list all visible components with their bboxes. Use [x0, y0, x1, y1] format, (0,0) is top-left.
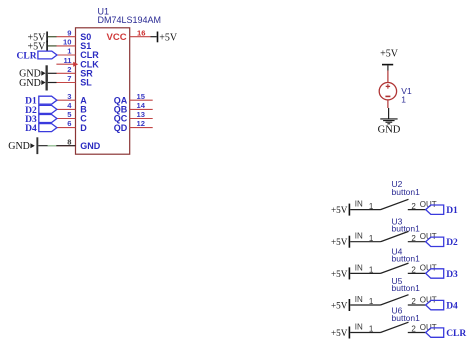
power +5V (pin 10) — [28, 41, 57, 53]
svg-text:1: 1 — [401, 95, 406, 105]
svg-text:VCC: VCC — [107, 32, 127, 43]
net flag D3 — [25, 115, 57, 125]
svg-text:button1: button1 — [392, 253, 421, 263]
pin 4 B — [57, 101, 88, 115]
pin 9 S0 — [56, 28, 91, 42]
net flag CLR (U6 out) — [426, 328, 467, 339]
power +5V (pin 9) — [28, 32, 57, 44]
power +5V (U4) — [331, 267, 350, 279]
svg-text:7: 7 — [67, 74, 71, 83]
svg-text:15: 15 — [137, 92, 146, 101]
svg-text:9: 9 — [67, 28, 71, 37]
svg-text:2: 2 — [411, 297, 416, 306]
voltage source V1 — [379, 71, 412, 109]
net flag D2 — [25, 105, 57, 115]
switch U3 — [350, 231, 437, 243]
net flag CLR — [17, 51, 58, 61]
switch U4 — [350, 263, 437, 275]
svg-text:1: 1 — [369, 325, 374, 334]
switch U2 — [350, 199, 437, 211]
IC U1 DM74LS194AM — [76, 7, 162, 155]
svg-text:2: 2 — [411, 202, 416, 211]
svg-text:+5V: +5V — [331, 300, 348, 310]
power +5V (V1 top) — [380, 49, 399, 71]
net flag D4 — [25, 124, 57, 134]
svg-text:+5V: +5V — [380, 49, 399, 60]
svg-text:+5V: +5V — [331, 205, 348, 215]
svg-text:D2: D2 — [446, 238, 458, 248]
svg-text:+5V: +5V — [331, 328, 348, 338]
svg-text:IN: IN — [355, 322, 363, 331]
svg-text:+5V: +5V — [331, 237, 348, 247]
svg-text:IN: IN — [355, 200, 363, 209]
switch U3 row — [392, 217, 421, 234]
svg-text:1: 1 — [369, 297, 374, 306]
svg-text:IN: IN — [355, 232, 363, 241]
net flag D4 (U5 out) — [426, 300, 458, 311]
svg-text:2: 2 — [411, 325, 416, 334]
svg-text:1: 1 — [369, 234, 374, 243]
svg-text:2: 2 — [67, 65, 71, 74]
net flag D2 (U3 out) — [426, 237, 458, 248]
svg-text:GND: GND — [8, 141, 30, 152]
switch U6 — [350, 322, 437, 334]
power +5V (U6) — [331, 327, 350, 339]
svg-text:6: 6 — [67, 119, 71, 128]
power +5V (U3) — [331, 236, 350, 248]
svg-text:13: 13 — [137, 110, 145, 119]
pin 14 QB — [114, 101, 153, 115]
ground GND (pin 8) — [8, 137, 75, 154]
switch U2 row — [392, 179, 421, 197]
svg-text:D4: D4 — [446, 301, 458, 311]
svg-text:CLR: CLR — [17, 51, 37, 61]
power +5V (U5) — [331, 299, 350, 311]
svg-text:CLR: CLR — [446, 329, 466, 339]
svg-text:+5V: +5V — [159, 32, 178, 43]
pin 13 QC — [114, 110, 153, 124]
svg-text:14: 14 — [137, 101, 146, 110]
ground GND (pin 2) — [19, 65, 56, 81]
svg-text:8: 8 — [67, 137, 71, 146]
svg-text:1: 1 — [369, 202, 374, 211]
svg-text:1: 1 — [369, 266, 374, 275]
svg-text:button1: button1 — [392, 283, 421, 293]
switch U5 row — [392, 276, 421, 293]
pin 11 CLK — [56, 56, 99, 70]
svg-text:button1: button1 — [392, 187, 421, 197]
power +5V (U2) — [331, 204, 350, 216]
svg-text:GND: GND — [80, 141, 101, 151]
ground GND (pin 7) — [19, 75, 56, 91]
pin 3 A — [57, 92, 88, 106]
net flag D1 — [25, 96, 57, 106]
pin 5 C — [57, 110, 88, 124]
svg-text:10: 10 — [63, 38, 71, 47]
svg-text:IN: IN — [355, 263, 363, 272]
svg-text:16: 16 — [137, 28, 145, 37]
pin 10 S1 — [56, 38, 91, 52]
svg-text:QD: QD — [114, 123, 128, 133]
ground GND (V1) — [378, 119, 401, 136]
svg-text:2: 2 — [411, 234, 416, 243]
pin 1 CLR — [57, 47, 99, 61]
wire V1 to ground — [388, 108, 390, 119]
power +5V (pin 16) — [151, 32, 178, 44]
pin 15 QA — [114, 92, 153, 106]
net flag D1 (U2 out) — [426, 205, 458, 216]
svg-text:11: 11 — [63, 56, 72, 65]
svg-text:D: D — [80, 123, 87, 133]
pin 7 SL — [56, 74, 92, 88]
svg-text:D1: D1 — [446, 206, 458, 216]
svg-text:12: 12 — [137, 119, 145, 128]
svg-text:3: 3 — [67, 92, 71, 101]
svg-text:GND: GND — [378, 125, 401, 136]
net flag D3 (U4 out) — [426, 269, 458, 280]
svg-text:DM74LS194AM: DM74LS194AM — [98, 15, 162, 25]
pin 6 D — [57, 119, 88, 133]
svg-text:button1: button1 — [392, 313, 421, 323]
switch U6 row — [392, 305, 421, 323]
svg-text:SL: SL — [80, 78, 92, 88]
svg-text:2: 2 — [411, 266, 416, 275]
pin 12 QD — [114, 119, 153, 133]
svg-text:+5V: +5V — [331, 269, 348, 279]
svg-text:IN: IN — [355, 295, 363, 304]
pin 16 VCC — [107, 28, 151, 43]
pin 8 GND — [56, 137, 101, 151]
switch U4 row — [392, 246, 421, 263]
svg-text:GND: GND — [19, 78, 41, 89]
svg-text:D4: D4 — [25, 124, 37, 134]
switch U5 — [350, 295, 437, 307]
svg-text:D3: D3 — [446, 270, 458, 280]
pin 2 SR — [56, 65, 93, 79]
